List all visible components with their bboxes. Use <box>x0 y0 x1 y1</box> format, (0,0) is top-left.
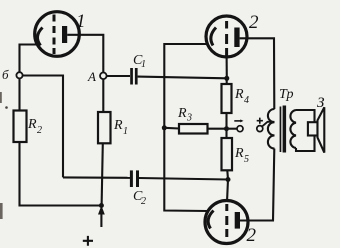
wire V1 anode to node A <box>67 35 103 73</box>
transformer core <box>280 107 282 153</box>
junction dot + supply <box>99 203 104 208</box>
tube V2 top anode plate <box>234 28 239 48</box>
resistor R2 <box>14 111 27 143</box>
wire junction to terminal <box>229 128 237 130</box>
wire R3 right lead <box>208 128 227 130</box>
junction dot bus/grid <box>226 177 231 182</box>
tube V2 top cathode arc <box>211 28 216 46</box>
terminal circle (bias tap) <box>237 126 243 132</box>
tube V1 envelope <box>35 12 80 57</box>
wire A to C1 <box>107 75 130 77</box>
wire R5 to bus junction <box>226 170 229 179</box>
tube V2 bottom cathode arc <box>208 211 213 229</box>
scan artifact left edge <box>0 92 2 103</box>
svg-text:R: R <box>113 118 123 133</box>
svg-text:2: 2 <box>247 225 257 246</box>
wire R3 left lead <box>164 127 179 130</box>
tube V2 bottom anode plate <box>235 212 240 229</box>
transformer Tr primary winding <box>268 109 275 149</box>
svg-text:З: З <box>317 95 325 111</box>
wire grid lead bottom tube <box>227 180 228 203</box>
wire bottom bus to C2 <box>63 176 130 179</box>
tube V2 bottom grid (dashed) <box>225 204 228 237</box>
wire C1 to V2 grid junction <box>138 77 227 79</box>
wire V2top cathode to left corner, down to bottom tube <box>164 44 208 211</box>
wire б to R2 <box>18 78 20 110</box>
resistor R3 <box>179 124 208 134</box>
svg-text:1: 1 <box>141 59 146 70</box>
svg-text:3: 3 <box>186 113 192 124</box>
wire R1 bottom to + junction <box>102 143 103 205</box>
junction dot grid/C1/R4 <box>224 76 229 81</box>
svg-text:R: R <box>234 87 244 102</box>
arrow + input <box>100 211 102 227</box>
svg-text:R: R <box>27 117 37 132</box>
svg-text:A: A <box>87 69 96 84</box>
svg-text:4: 4 <box>244 95 249 106</box>
tube V2 top envelope <box>206 16 247 57</box>
label + <box>83 236 93 246</box>
svg-text:б: б <box>2 67 9 82</box>
svg-text:1: 1 <box>123 126 128 137</box>
scan artifact bottom left <box>0 203 3 219</box>
svg-text:2: 2 <box>141 196 146 207</box>
wire б right then down <box>23 76 63 178</box>
wire V2top grid lead down <box>226 56 228 78</box>
wire terminal to transformer tap <box>262 122 274 126</box>
svg-text:R: R <box>177 106 187 121</box>
wire A to R1 <box>102 79 104 112</box>
wire C2 to R5 junction <box>139 178 228 180</box>
scan artifact comma <box>5 106 8 109</box>
svg-text:2: 2 <box>37 125 42 136</box>
junction dot R3 left <box>162 125 167 130</box>
resistor R4 <box>222 84 232 113</box>
capacitor C1 <box>130 68 133 85</box>
arrow mark above terminal <box>234 120 241 122</box>
svg-text:1: 1 <box>76 11 86 32</box>
resistor R5 <box>222 138 233 170</box>
svg-text:R: R <box>234 146 244 161</box>
wire V1 cathode to corner <box>20 45 38 73</box>
svg-text:5: 5 <box>244 154 249 165</box>
wire to R4 <box>226 78 228 84</box>
junction dot R4/R5/R3 <box>224 126 229 131</box>
node A (terminal circle) <box>100 73 107 80</box>
wire V2top anode to transformer <box>240 38 275 109</box>
wire transformer to bottom tube anode <box>240 149 274 221</box>
tube V1 anode plate <box>62 26 67 43</box>
tube V2 top grid (dashed) <box>225 21 228 57</box>
resistor R1 <box>98 112 111 143</box>
wire R2 bottom to corner <box>20 142 102 206</box>
node б (terminal circle) <box>16 72 22 78</box>
wire R4 to R5 <box>225 113 227 138</box>
speaker driver box <box>308 122 318 135</box>
tube V1 cathode arc <box>37 28 42 46</box>
transformer secondary winding <box>290 110 296 148</box>
speaker horn <box>318 107 325 152</box>
tube V2 bottom envelope <box>205 201 248 244</box>
capacitor C2 <box>130 170 133 187</box>
plus mark <box>257 118 263 124</box>
wire secondary loop to speaker <box>296 110 315 151</box>
tube V1 grid (dashed) <box>53 15 56 55</box>
svg-text:2: 2 <box>249 12 259 33</box>
svg-text:Тр: Тр <box>279 87 293 102</box>
terminal circle + (anode supply) <box>257 126 263 132</box>
